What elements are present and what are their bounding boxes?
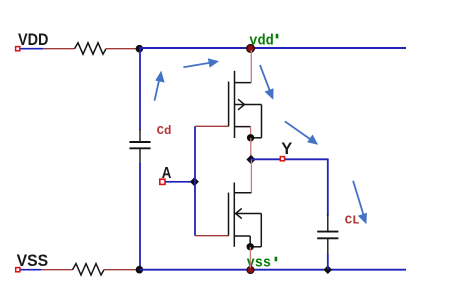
svg-text:Cd: Cd: [157, 124, 172, 138]
resistor R2: [73, 264, 105, 275]
wire resistor R1 to node vdd rail (red): [106, 48, 139, 50]
svg-text:Y: Y: [281, 140, 292, 158]
svg-text:VSS: VSS: [17, 252, 48, 270]
svg-text:CL: CL: [345, 214, 360, 228]
wire VSS port stub (blue): [21, 269, 42, 271]
transistor M2 (NMOS bottom): [229, 183, 262, 247]
port VSS: [16, 252, 48, 272]
node vss': [247, 255, 278, 273]
wire resistor R2 to junction (red): [104, 269, 139, 271]
annotation arrow 5: [353, 181, 367, 225]
wire CL branch upper (blue): [327, 159, 329, 216]
node Y junction: [246, 155, 255, 164]
wire VDD to resistor R1 (red): [43, 48, 75, 50]
junction A: [190, 177, 199, 186]
wire Cd branch lower (blue): [139, 163, 141, 270]
junction M2 source/bulk: [247, 243, 254, 250]
wire M1 source to node Y (red): [250, 138, 252, 160]
port A: [160, 165, 172, 185]
capacitor Cd: [129, 129, 150, 164]
junction M1 source/bulk: [247, 134, 254, 141]
annotation arrow 1: [155, 71, 165, 101]
wire M1 drain to vdd' (red): [250, 50, 252, 83]
transistor M1 (PMOS top): [229, 71, 262, 138]
wire Cd branch upper (blue): [139, 49, 141, 130]
wire Y horizontal (blue): [251, 158, 329, 160]
wire M2 source to vss' (red): [249, 247, 251, 268]
wire A to junction (blue): [165, 181, 195, 183]
annotation arrow 2: [183, 58, 219, 67]
capacitor CL: [317, 215, 338, 255]
junction top-left: [136, 45, 144, 53]
wire input vertical (blue): [194, 126, 196, 235]
wire top rail (blue): [139, 47, 406, 49]
annotation arrow 3: [260, 65, 274, 100]
resistor R1: [75, 43, 107, 54]
wire VSS to resistor R2 (red): [41, 269, 73, 271]
wire bottom rail (blue): [139, 269, 406, 271]
wire CL branch lower (blue): [327, 254, 329, 270]
junction bottom-left: [136, 266, 144, 274]
wire Y drain to M2 (red): [250, 160, 252, 193]
wire gate M2 (red): [195, 235, 229, 237]
node vdd': [247, 34, 279, 53]
junction CL bottom: [324, 265, 333, 274]
svg-text:vdd: vdd: [249, 34, 273, 50]
port VDD: [16, 31, 49, 51]
svg-text:VDD: VDD: [18, 31, 48, 49]
wire gate M1 (red): [195, 125, 229, 127]
port Y: [280, 140, 292, 161]
annotation arrow 4: [285, 121, 318, 144]
wire VDD port stub (blue): [21, 48, 44, 50]
wire M1 source lead (red): [250, 127, 252, 138]
